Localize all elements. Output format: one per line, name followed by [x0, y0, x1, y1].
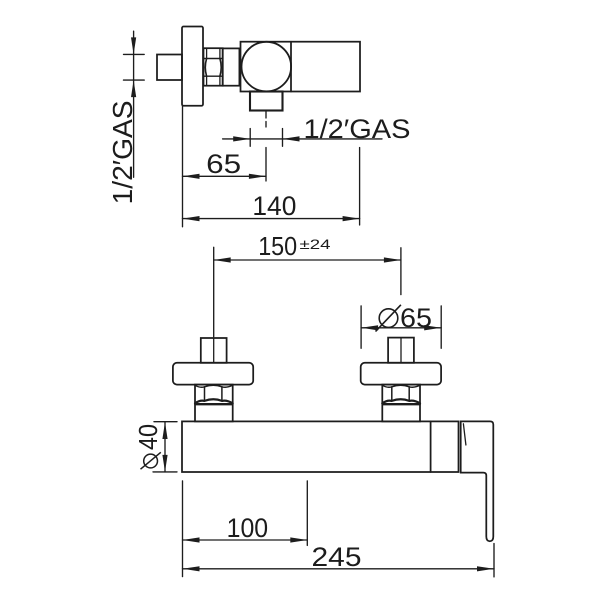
arrow: vertical GAS top (down): [131, 37, 136, 54]
arrow: 65 right: [249, 174, 266, 179]
bottom outlet stub (side view): [250, 92, 283, 111]
svg-text:65: 65: [206, 149, 241, 179]
right union: threaded stub: [388, 338, 414, 363]
body (front view): [182, 421, 459, 472]
svg-text:40: 40: [133, 424, 163, 450]
100 right extension: [306, 481, 308, 546]
right flange: [361, 363, 441, 385]
right stub center split: [400, 338, 402, 363]
body right divider: [430, 421, 432, 472]
arrow: 65 left: [183, 174, 200, 179]
arrow: 140 left: [183, 216, 200, 221]
svg-text:65: 65: [400, 303, 432, 333]
arrow: GAS-h left (right): [233, 136, 250, 141]
100 dimension line: [183, 539, 308, 541]
right nut facets: [392, 387, 409, 401]
left stub center split: [213, 338, 215, 363]
arrow: 150 left: [214, 257, 231, 262]
valve body (side view): [241, 42, 361, 92]
left flange: [173, 363, 253, 385]
wall plate escutcheon (side view): [182, 27, 203, 106]
right nut bottom chamfer band: [382, 399, 420, 403]
svg-text:100: 100: [227, 513, 269, 543]
arrow: dia40 top (up): [162, 422, 167, 439]
ext tick right of outlet: [282, 129, 284, 147]
arrow: 245 right: [477, 566, 494, 571]
dia65 dimension line: [361, 327, 441, 329]
dia40 dimension line: [164, 422, 166, 472]
150 left extension: [213, 247, 215, 336]
horizontal 1/2 GAS dimension line: [223, 138, 382, 140]
arrow: 100 left: [183, 537, 200, 542]
outlet centerline dashes: [265, 112, 267, 182]
handle lever: [461, 421, 494, 541]
left nut top chamfer wave: [195, 385, 233, 387]
left nut bottom chamfer band: [195, 399, 233, 403]
body divider line: [290, 42, 292, 92]
tick top: [124, 53, 145, 55]
arrow: GAS-h right (left): [283, 136, 300, 141]
arrow: 245 left: [183, 566, 200, 571]
right extension line (body right): [359, 148, 361, 226]
svg-text:1/2′GAS: 1/2′GAS: [107, 100, 138, 204]
arrow: dia40 bottom (down): [162, 455, 167, 472]
arrow: dia65 left: [361, 325, 378, 330]
65 dimension line: [183, 175, 266, 177]
150 dimension line: [214, 259, 401, 261]
symbol: dia65 circle: [376, 305, 401, 332]
svg-text:150: 150: [258, 231, 297, 261]
dia65 right extension: [440, 306, 442, 348]
dia65 left extension: [360, 306, 362, 348]
tick bottom: [124, 79, 145, 81]
left extension (body left, bottom view): [182, 481, 184, 577]
left union: threaded stub: [201, 338, 227, 363]
dia40 tick bottom: [153, 471, 177, 473]
right hex nut (front): [382, 385, 420, 422]
arrow: vertical GAS bottom (up): [131, 80, 136, 97]
hex nut (side view): [204, 48, 223, 85]
wall pipe stub (side view): [157, 55, 182, 81]
arrow: dia65 right: [424, 325, 441, 330]
svg-text:140: 140: [252, 191, 296, 221]
dia40 tick top: [154, 421, 177, 423]
handle seam: [463, 424, 466, 445]
left hex nut (front): [195, 385, 233, 422]
arrow: 150 right: [384, 257, 401, 262]
symbol: dia40 circle: [141, 452, 161, 469]
arrowheads: [131, 37, 494, 571]
245 dimension line: [183, 568, 495, 570]
vertical 1/2 GAS dimension line: [133, 31, 135, 177]
dimension lines: thin group: [124, 31, 495, 577]
245 right extension: [493, 544, 495, 577]
svg-text:1/2′GAS: 1/2′GAS: [304, 114, 411, 144]
arrow: 140 right: [343, 216, 360, 221]
140 dimension line: [183, 218, 360, 220]
hex nut facet lines: [204, 59, 223, 77]
connector sleeve (side view): [223, 48, 240, 85]
arrow: 100 right: [290, 537, 307, 542]
150 right extension: [400, 248, 402, 295]
cartridge circle: [241, 42, 291, 92]
svg-text:±24: ±24: [300, 237, 332, 252]
left extension line (plate edge): [182, 105, 184, 227]
svg-text:245: 245: [312, 542, 362, 572]
right nut top chamfer wave: [382, 385, 420, 387]
ext tick left of outlet: [249, 129, 251, 147]
left nut facets: [205, 387, 222, 401]
